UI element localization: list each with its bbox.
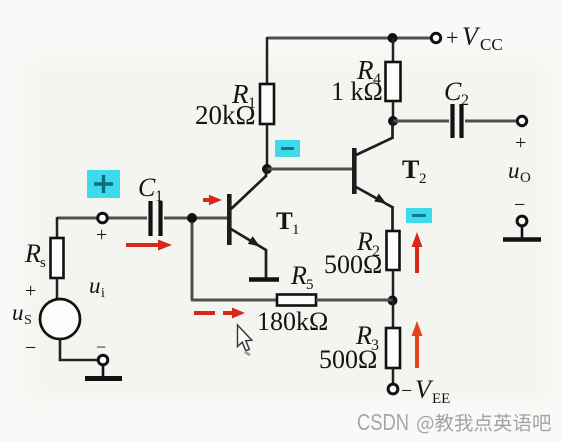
svg-text:1 kΩ: 1 kΩ	[331, 77, 383, 106]
ground: input	[85, 376, 122, 381]
wire: C1 junction down-leg	[191, 218, 194, 300]
svg-text:1: 1	[292, 222, 300, 238]
label ui	[89, 273, 105, 301]
wire: R2 bottom lead	[392, 270, 395, 301]
wire: terminal to input ground	[102, 364, 105, 376]
svg-text:1: 1	[155, 188, 163, 205]
label us	[12, 300, 32, 328]
wire: R3 bottom lead	[392, 368, 395, 384]
svg-text:+: +	[515, 132, 526, 154]
terminal: input ground	[98, 355, 108, 365]
svg-text:2: 2	[461, 92, 469, 109]
wire: junction to C2	[393, 120, 449, 123]
terminal +VCC	[431, 33, 440, 42]
label C2	[444, 77, 469, 109]
svg-text:T: T	[402, 155, 419, 184]
annotation: red arrow on feedback rail	[223, 308, 245, 319]
wire: R4 top lead	[392, 38, 395, 62]
label +VCC	[446, 22, 503, 54]
label -VEE	[401, 375, 450, 407]
label Rs	[24, 239, 46, 271]
svg-text:−: −	[25, 337, 36, 359]
annotation: red current arrow beside R2	[412, 232, 423, 273]
annotation: red dash on feedback rail	[194, 311, 215, 315]
wire: source bottom to ground terminal	[60, 339, 98, 360]
svg-text:u: u	[508, 158, 520, 183]
svg-text:i: i	[101, 286, 105, 301]
node: R4 / T2 collector / C2 junction	[388, 116, 398, 126]
svg-text:+: +	[25, 280, 36, 302]
svg-text:S: S	[24, 313, 32, 328]
annotation: red arrow at T1 base	[203, 195, 222, 205]
svg-text:s: s	[40, 255, 46, 271]
wire: R1 top lead	[266, 37, 269, 84]
annotation: red arrow below C1	[126, 240, 172, 251]
svg-text:5: 5	[306, 277, 314, 293]
ground: output	[503, 237, 541, 242]
wire: T2 emitter lead	[391, 206, 394, 231]
terminal: output +	[517, 116, 526, 125]
terminal -VEE	[388, 384, 398, 394]
watermark CSDN	[357, 409, 551, 435]
capacitor C1	[151, 201, 161, 236]
wire: output - terminal to ground	[521, 226, 524, 238]
wire: R4 bottom lead	[392, 101, 395, 121]
label R3	[355, 321, 379, 354]
annotation: cyan plus box at input	[87, 170, 120, 198]
annotation: cyan minus box at T2 emitter	[406, 208, 432, 223]
node: R2 / R3 / R5 junction	[388, 296, 398, 306]
wire: C2 to output terminal	[465, 120, 517, 123]
capacitor C2	[453, 104, 462, 138]
svg-text:u: u	[12, 300, 24, 325]
svg-text:2: 2	[419, 171, 427, 187]
svg-text:O: O	[520, 170, 531, 186]
label R5	[290, 261, 314, 293]
svg-text:180kΩ: 180kΩ	[257, 307, 328, 336]
ground: T1 emitter	[249, 277, 279, 282]
svg-text:−: −	[514, 194, 525, 216]
label R2	[356, 227, 380, 260]
resistor R5	[277, 295, 316, 306]
resistor R4	[386, 62, 401, 101]
annotation: cyan minus box at T1 collector	[275, 140, 300, 157]
resistor Rs	[51, 238, 64, 278]
annotation: red current arrow beside R3	[412, 321, 423, 368]
wire: C1 to T1 base	[164, 217, 227, 220]
label T2	[402, 155, 427, 187]
svg-text:500Ω: 500Ω	[319, 345, 377, 374]
svg-text:500Ω: 500Ω	[324, 250, 382, 279]
wire: top supply rail	[267, 37, 430, 40]
label R4	[356, 55, 381, 88]
svg-text:C: C	[444, 77, 462, 106]
node: C1 / feedback junction	[187, 213, 197, 223]
wire: Rs top lead	[56, 217, 59, 238]
node: R1 / T1 collector / T2 base junction	[262, 164, 272, 174]
svg-text:−: −	[401, 380, 412, 402]
source us (circle)	[40, 299, 80, 339]
wire: bottom feedback rail left segment	[191, 299, 277, 302]
svg-text:R: R	[290, 261, 307, 290]
wire: input wire to C1	[57, 217, 147, 220]
wire: Rs to source	[56, 278, 59, 300]
wire: bottom feedback rail right segment	[316, 299, 393, 302]
wire: T1 emitter lead	[265, 249, 268, 278]
svg-text:C: C	[138, 173, 156, 202]
wire: R1 bottom lead	[266, 124, 269, 169]
terminal: output -	[517, 216, 527, 226]
label R1	[231, 79, 256, 112]
wire: R3 top lead	[392, 300, 395, 328]
node: top rail junction over R4	[388, 33, 398, 43]
label T1	[276, 208, 300, 238]
svg-text:T: T	[276, 208, 293, 235]
svg-text:+: +	[96, 224, 107, 246]
terminal: input +	[98, 213, 108, 223]
svg-text:EE: EE	[432, 391, 450, 407]
svg-text:u: u	[89, 273, 101, 298]
label C1	[138, 173, 163, 205]
transistor T2	[352, 121, 393, 207]
wire: junction to T2 base	[267, 168, 352, 171]
svg-text:CC: CC	[480, 35, 503, 54]
annotation: mouse cursor	[238, 325, 252, 355]
svg-text:+: +	[446, 25, 458, 50]
resistor R3	[386, 328, 400, 368]
svg-text:R: R	[24, 239, 41, 268]
label uO	[508, 158, 531, 186]
transistor T1	[227, 168, 266, 250]
svg-text:CSDN: CSDN	[357, 409, 409, 435]
resistor R1	[260, 84, 274, 124]
svg-text:20kΩ: 20kΩ	[195, 100, 256, 130]
resistor R2	[387, 231, 400, 270]
